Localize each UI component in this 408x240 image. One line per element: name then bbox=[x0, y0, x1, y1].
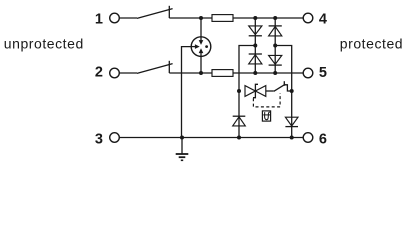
svg-text:3: 3 bbox=[95, 131, 103, 147]
svg-text:unprotected: unprotected bbox=[4, 36, 84, 52]
svg-text:2: 2 bbox=[95, 65, 103, 81]
svg-text:5: 5 bbox=[319, 65, 327, 81]
svg-text:protected: protected bbox=[340, 36, 403, 52]
svg-text:6: 6 bbox=[319, 131, 327, 147]
svg-text:4: 4 bbox=[319, 11, 327, 27]
svg-text:1: 1 bbox=[95, 11, 103, 27]
